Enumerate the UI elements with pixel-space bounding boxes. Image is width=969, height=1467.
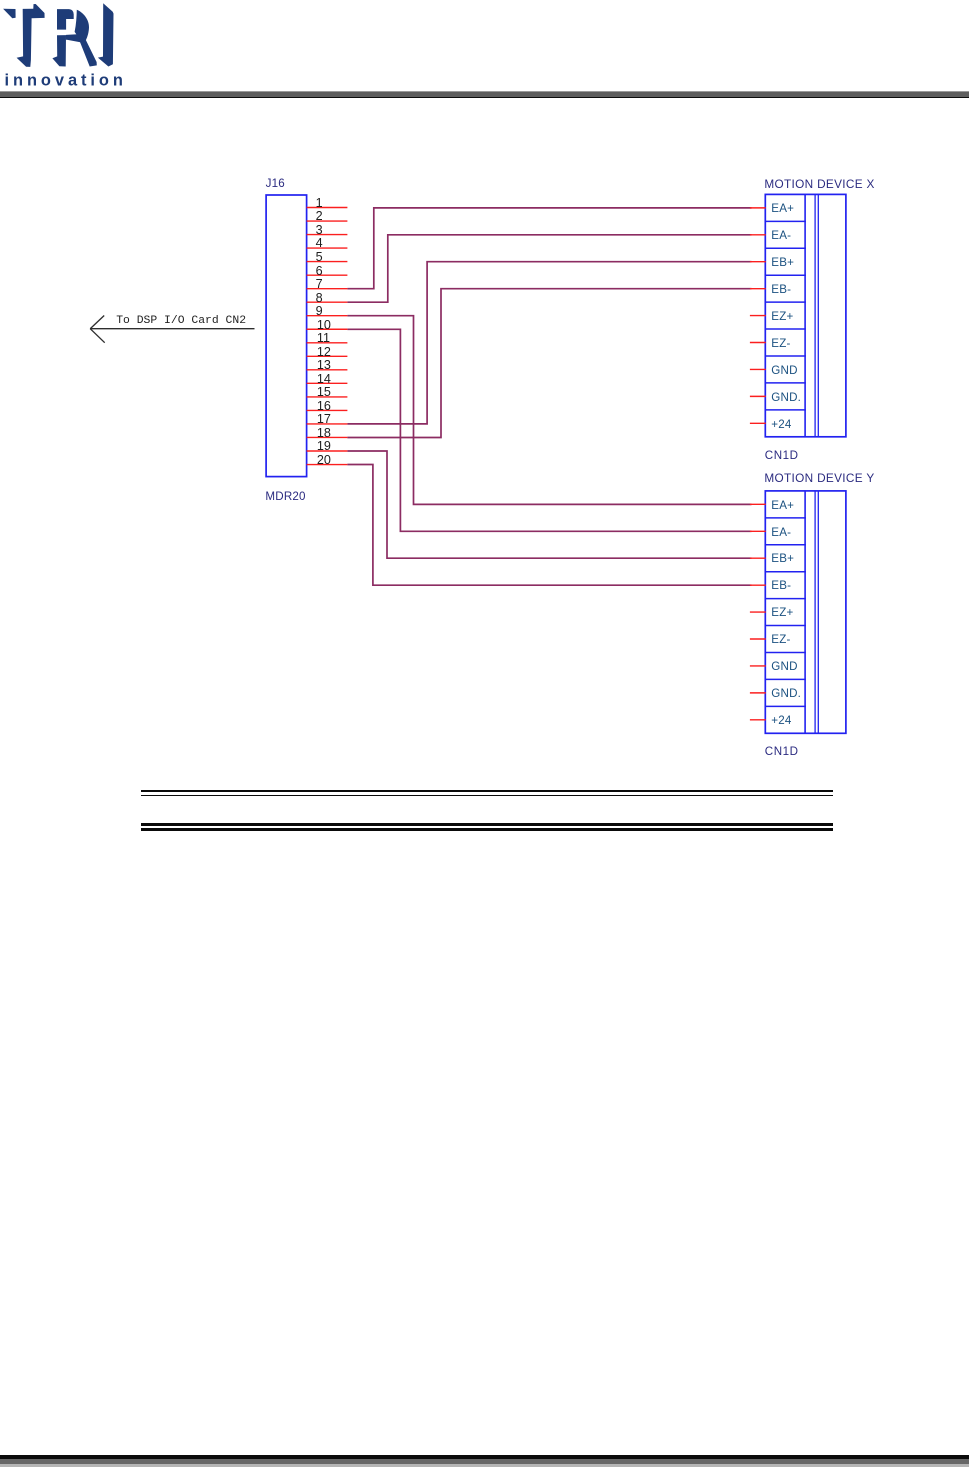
CN1D Y pin GND. stub xyxy=(750,692,766,694)
CN1D X pin EA- stub xyxy=(750,234,766,236)
wire J16-20 to Y EB- xyxy=(347,465,751,586)
CN1D X pin label EB+ xyxy=(771,257,794,268)
J16 pin 6 number xyxy=(316,266,323,276)
J16 pin 2 stub xyxy=(307,220,348,222)
wire J16-8 to X EA- xyxy=(347,235,751,302)
label MDR20 xyxy=(265,492,305,502)
arrow to DSP I/O Card xyxy=(90,316,255,343)
J16 pin 14 number xyxy=(317,374,331,384)
J16 pin 13 stub xyxy=(307,369,348,371)
J16 pin 9 number xyxy=(316,306,323,316)
J16 pin 3 stub xyxy=(307,234,348,236)
connector CN1D Y title xyxy=(764,473,874,483)
J16 pin 17 number xyxy=(317,414,331,424)
CN1D Y cell divider 4 xyxy=(765,598,806,600)
CN1D Y pin EZ+ stub xyxy=(750,611,766,613)
J16 pin 16 stub xyxy=(307,409,348,411)
CN1D Y pin +24 stub xyxy=(750,719,766,721)
CN1D X pin GND. stub xyxy=(750,395,766,397)
J16 pin 5 number xyxy=(316,252,323,262)
J16 pin 11 number xyxy=(317,333,330,343)
CN1D X pin GND stub xyxy=(750,368,766,370)
J16 pin 12 stub xyxy=(307,355,348,357)
TRI innovation logo xyxy=(0,0,135,92)
connector J16 box xyxy=(266,195,307,477)
CN1D Y pin EA+ stub xyxy=(750,503,766,505)
J16 pin 14 stub xyxy=(307,382,348,384)
CN1D X cell divider 7 xyxy=(765,382,806,384)
CN1D Y cell divider 5 xyxy=(765,625,806,627)
connector CN1D Y outer box xyxy=(765,491,846,733)
J16 pin 6 stub xyxy=(307,274,348,276)
CN1D X cell divider 2 xyxy=(765,247,806,249)
header rule xyxy=(0,91,969,92)
J16 pin 7 stub xyxy=(307,288,348,290)
J16 pin 8 number xyxy=(316,293,323,303)
wire J16-9 to Y EA+ xyxy=(347,316,751,505)
CN1D Y pin EB- stub xyxy=(750,584,766,586)
wire J16-18 to X EB- xyxy=(347,289,751,438)
CN1D Y pin label EA- xyxy=(771,527,791,538)
connector CN1D X title xyxy=(764,179,874,189)
CN1D X pin +24 stub xyxy=(750,422,766,424)
J16 pin 1 number xyxy=(316,198,323,208)
CN1D X cell divider 5 xyxy=(765,328,806,330)
CN1D Y cell divider 6 xyxy=(765,651,806,653)
separator rule 1 xyxy=(141,790,834,791)
CN1D X pin EZ- stub xyxy=(750,342,766,344)
CN1D X pin label EA+ xyxy=(771,203,794,214)
CN1D Y pin label GND. xyxy=(771,688,801,699)
J16 pin 19 number xyxy=(317,441,331,451)
J16 pin 20 number xyxy=(317,455,331,465)
wire J16-19 to Y EB+ xyxy=(347,451,751,558)
CN1D X pin EB- stub xyxy=(750,288,766,290)
CN1D Y pin EA- stub xyxy=(750,530,766,532)
J16 pin 17 stub xyxy=(307,423,348,425)
CN1D Y pin EB+ stub xyxy=(750,557,766,559)
CN1D Y pin label EZ+ xyxy=(771,607,793,618)
CN1D X inner vertical lines xyxy=(804,194,806,436)
CN1D Y pin label EB+ xyxy=(771,553,794,564)
label: To DSP I/O Card CN2 xyxy=(116,316,246,327)
J16 pin 11 stub xyxy=(307,342,348,344)
CN1D X pin EZ+ stub xyxy=(750,315,766,317)
J16 pin 10 stub xyxy=(307,328,348,330)
CN1D Y pin label EZ- xyxy=(771,634,790,645)
J16 pin 4 number xyxy=(316,238,323,248)
J16 pin 16 number xyxy=(317,401,331,411)
footer rule xyxy=(0,1455,969,1459)
CN1D X cell divider 8 xyxy=(765,409,806,411)
J16 pin 7 number xyxy=(316,279,323,289)
label CN1D (Y) xyxy=(765,747,799,757)
CN1D Y cell divider 2 xyxy=(765,544,806,546)
CN1D X pin label EZ+ xyxy=(771,311,793,322)
CN1D Y cell divider 8 xyxy=(765,705,806,707)
label J16 xyxy=(266,179,285,189)
CN1D Y cell divider 1 xyxy=(765,517,806,519)
connector CN1D X outer box xyxy=(765,194,846,436)
CN1D Y pin label EA+ xyxy=(771,500,794,511)
CN1D X cell divider 4 xyxy=(765,301,806,303)
CN1D X pin label EZ- xyxy=(771,338,790,349)
J16 pin 13 number xyxy=(317,360,331,370)
CN1D X pin label +24 xyxy=(771,419,791,430)
J16 pin 3 number xyxy=(316,225,323,235)
wire J16-10 to Y EA- xyxy=(347,329,751,531)
J16 pin 18 number xyxy=(317,428,331,438)
label CN1D (X) xyxy=(765,451,799,461)
J16 pin 8 stub xyxy=(307,301,348,303)
J16 pin 4 stub xyxy=(307,247,348,249)
separator rule 2 xyxy=(141,823,834,826)
J16 pin 18 stub xyxy=(307,436,348,438)
CN1D X pin label GND. xyxy=(771,392,801,403)
CN1D Y inner vertical lines xyxy=(804,491,806,733)
wire J16-17 to X EB+ xyxy=(347,262,751,424)
CN1D Y cell divider 7 xyxy=(765,678,806,680)
J16 pin 9 stub xyxy=(307,315,348,317)
CN1D Y pin GND stub xyxy=(750,665,766,667)
CN1D X cell divider 3 xyxy=(765,274,806,276)
J16 pin 20 stub xyxy=(307,464,348,466)
J16 pin 19 stub xyxy=(307,450,348,452)
wire J16-7 to X EA+ xyxy=(347,208,751,289)
CN1D X pin EA+ stub xyxy=(750,207,766,209)
J16 pin 10 number xyxy=(317,320,331,330)
J16 pin 15 stub xyxy=(307,396,348,398)
J16 pin 15 number xyxy=(317,387,331,397)
J16 pin 5 stub xyxy=(307,261,348,263)
CN1D X pin EB+ stub xyxy=(750,261,766,263)
CN1D Y pin label GND xyxy=(771,661,797,672)
J16 pin 1 stub xyxy=(307,207,348,209)
CN1D X cell divider 6 xyxy=(765,355,806,357)
J16 pin 2 number xyxy=(316,211,323,221)
CN1D Y pin label +24 xyxy=(771,715,791,726)
CN1D X pin label EA- xyxy=(771,230,791,241)
CN1D Y pin EZ- stub xyxy=(750,638,766,640)
CN1D X pin label EB- xyxy=(771,284,791,295)
CN1D Y cell divider 3 xyxy=(765,571,806,573)
CN1D Y pin label EB- xyxy=(771,580,791,591)
J16 pin 12 number xyxy=(317,347,331,357)
CN1D X cell divider 1 xyxy=(765,220,806,222)
CN1D X pin label GND xyxy=(771,365,797,376)
